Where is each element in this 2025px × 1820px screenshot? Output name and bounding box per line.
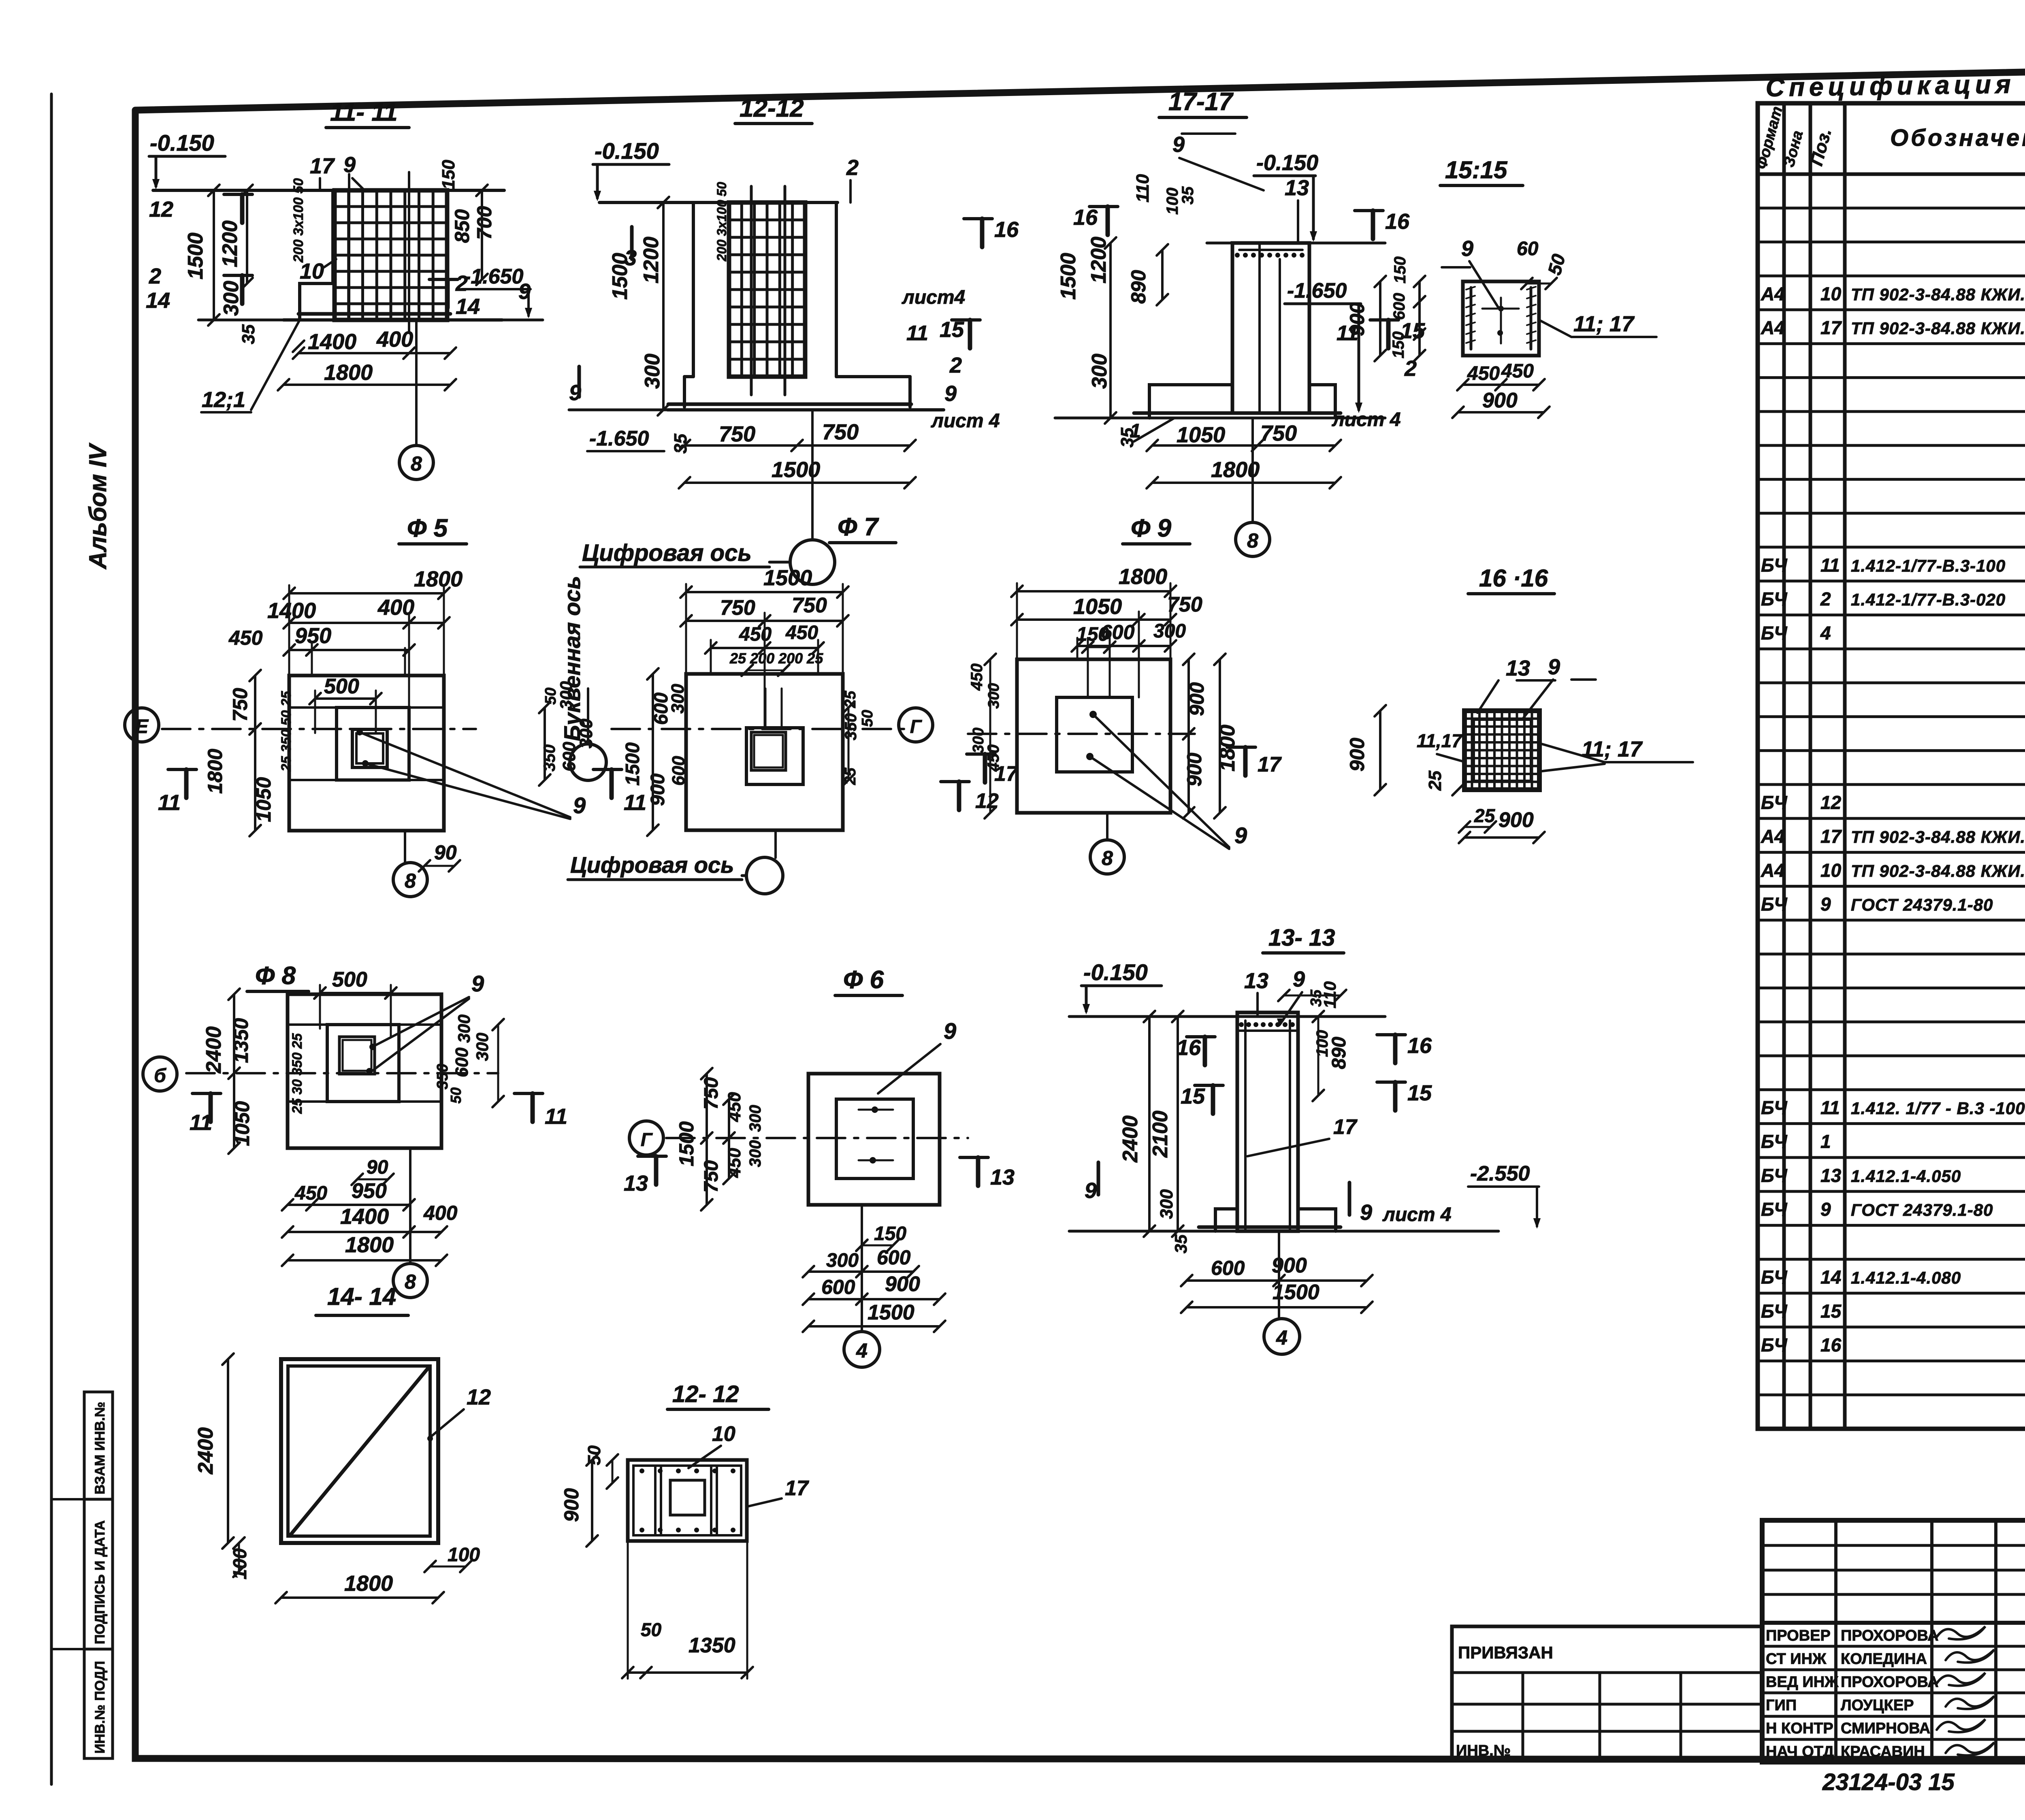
F9 axis dashdot [968, 733, 1195, 735]
svg-text:1350: 1350 [688, 1634, 735, 1657]
11-11 column mesh [335, 190, 447, 320]
svg-text:600: 600 [821, 1276, 855, 1298]
svg-text:1200: 1200 [1087, 237, 1111, 283]
svg-text:1500: 1500 [1057, 253, 1080, 300]
14-14 square [281, 1359, 438, 1543]
svg-text:Ф 9: Ф 9 [1131, 514, 1172, 542]
svg-text:900: 900 [1183, 752, 1206, 786]
F5 extension lines [288, 585, 290, 676]
svg-text:ВЕД ИНЖ: ВЕД ИНЖ [1766, 1674, 1839, 1691]
svg-text:13: 13 [624, 1171, 648, 1196]
svg-text:лист 4: лист 4 [1382, 1204, 1452, 1225]
svg-text:17: 17 [785, 1477, 809, 1500]
F6 axis bubble 4 [861, 1205, 863, 1332]
svg-text:БЧ: БЧ [1761, 622, 1788, 644]
svg-text:450: 450 [985, 744, 1002, 772]
11-11 footing [298, 312, 450, 316]
svg-text:25: 25 [1425, 771, 1445, 791]
F6 axis dashdot [666, 1137, 968, 1139]
svg-text:11,17: 11,17 [1417, 730, 1463, 751]
svg-text:1800: 1800 [204, 749, 226, 794]
svg-text:СТ ИНЖ: СТ ИНЖ [1766, 1650, 1827, 1667]
svg-text:600: 600 [877, 1246, 911, 1269]
svg-text:БЧ: БЧ [1761, 1131, 1788, 1152]
svg-text:1050: 1050 [1177, 423, 1225, 447]
svg-text:2400: 2400 [194, 1427, 217, 1475]
spec table outer box [1758, 103, 2025, 1429]
svg-text:850: 850 [451, 209, 473, 243]
svg-text:35: 35 [1171, 1234, 1190, 1253]
F9 dots [1089, 711, 1097, 718]
svg-text:9: 9 [1360, 1200, 1372, 1225]
svg-text:9: 9 [1172, 132, 1185, 157]
svg-text:900: 900 [1272, 1254, 1307, 1277]
svg-text:25: 25 [1474, 805, 1496, 826]
svg-text:4: 4 [1276, 1326, 1287, 1349]
svg-text:1500: 1500 [868, 1301, 914, 1324]
svg-text:9: 9 [518, 279, 531, 304]
svg-text:БЧ: БЧ [1761, 1199, 1788, 1220]
svg-text:лист 4: лист 4 [931, 410, 1000, 432]
17-17 mesh dots [1235, 253, 1240, 258]
F5 horizontal lines inside [289, 706, 337, 709]
svg-text:50: 50 [584, 1445, 604, 1465]
svg-text:16: 16 [1407, 1034, 1432, 1058]
F8 axis dashdot [186, 1072, 498, 1074]
svg-text:12- 12: 12- 12 [672, 1381, 739, 1407]
svg-text:1200: 1200 [218, 220, 242, 267]
svg-text:25 350 50 25: 25 350 50 25 [279, 690, 294, 772]
svg-text:4: 4 [856, 1339, 868, 1362]
17-17 inner verticals [1258, 243, 1261, 413]
F6 axis circle G [629, 1121, 663, 1155]
svg-text:1800: 1800 [414, 567, 463, 591]
svg-text:А4: А4 [1761, 860, 1785, 881]
strip tie lines [51, 1498, 84, 1500]
svg-text:10: 10 [300, 259, 324, 283]
F5 outer square [289, 676, 444, 831]
svg-text:300: 300 [473, 1033, 492, 1061]
svg-text:25 200 200 25: 25 200 200 25 [729, 650, 823, 667]
svg-text:ЛОУЦКЕР: ЛОУЦКЕР [1841, 1697, 1914, 1714]
title block outer [1762, 1520, 2025, 1762]
svg-text:9: 9 [944, 381, 957, 406]
svg-text:1500: 1500 [184, 232, 207, 279]
svg-text:13: 13 [1506, 656, 1530, 680]
svg-text:300: 300 [641, 354, 664, 389]
svg-text:-0.150: -0.150 [150, 130, 214, 156]
11-11 mesh extra verticals [348, 174, 350, 320]
F8 outer square [288, 994, 441, 1148]
svg-text:600: 600 [669, 756, 688, 786]
svg-text:600: 600 [1211, 1257, 1245, 1279]
left margin strip box [84, 1392, 113, 1758]
11-11 ground line [198, 319, 543, 322]
svg-text:16: 16 [1385, 209, 1410, 234]
svg-text:9: 9 [1548, 655, 1560, 679]
svg-text:35: 35 [1179, 186, 1197, 205]
svg-text:9: 9 [573, 793, 586, 818]
svg-text:14: 14 [456, 294, 480, 319]
svg-text:4: 4 [1820, 622, 1831, 644]
svg-text:9: 9 [1820, 894, 1831, 915]
spec table header row line [1758, 173, 2025, 176]
svg-text:13: 13 [1285, 176, 1309, 200]
13-13 footing [1215, 1209, 1237, 1231]
svg-text:12;1: 12;1 [202, 388, 245, 412]
svg-text:БЧ: БЧ [1761, 1267, 1788, 1288]
spec table column lines [1782, 103, 1786, 1429]
svg-text:8: 8 [405, 870, 416, 892]
svg-text:23124-03 15: 23124-03 15 [1822, 1769, 1955, 1795]
svg-text:15: 15 [1820, 1300, 1842, 1321]
12-12s rect [628, 1460, 747, 1541]
13-13 ground [1069, 1230, 1498, 1233]
13-13 column [1237, 1012, 1298, 1231]
svg-text:15: 15 [1407, 1081, 1432, 1105]
F8 column squares [339, 1037, 375, 1074]
svg-text:лист 4: лист 4 [1332, 409, 1401, 430]
F9 extension lines [1016, 583, 1018, 659]
F5 column squares [352, 729, 387, 767]
svg-text:Альбом IV: Альбом IV [84, 442, 111, 570]
svg-text:1400: 1400 [340, 1204, 389, 1229]
svg-text:-2.550: -2.550 [1470, 1162, 1530, 1185]
svg-text:БЧ: БЧ [1761, 1165, 1788, 1186]
svg-text:ВЗАМ ИНВ.№: ВЗАМ ИНВ.№ [92, 1402, 108, 1494]
svg-text:450: 450 [739, 624, 772, 645]
svg-text:450: 450 [294, 1183, 327, 1204]
13-13 16 15 marks [1203, 1037, 1207, 1065]
svg-text:17: 17 [1820, 317, 1842, 338]
svg-text:Цифровая ось: Цифровая ось [582, 540, 752, 566]
svg-text:9: 9 [1820, 1199, 1831, 1220]
svg-text:1800: 1800 [324, 360, 373, 385]
svg-text:КРАСАВИН: КРАСАВИН [1841, 1743, 1925, 1760]
svg-text:300: 300 [985, 683, 1002, 709]
svg-text:110: 110 [1133, 174, 1153, 202]
svg-text:150: 150 [874, 1223, 906, 1245]
svg-text:16: 16 [1820, 1334, 1842, 1355]
svg-text:Цифровая ось: Цифровая ось [570, 852, 734, 878]
17-17 column [1232, 243, 1309, 413]
svg-text:750: 750 [719, 422, 755, 446]
12-12 column mesh [729, 202, 805, 377]
svg-text:12: 12 [1820, 792, 1842, 813]
svg-text:2100: 2100 [1149, 1110, 1172, 1158]
F7 axis circle G [899, 708, 933, 742]
svg-text:500: 500 [332, 968, 367, 991]
12-12s inner pattern [654, 1466, 657, 1535]
svg-text:БЧ: БЧ [1761, 588, 1788, 610]
svg-text:13: 13 [990, 1165, 1015, 1189]
12-12 top slab line [599, 201, 838, 204]
svg-text:ПОДПИСЬ И ДАТА: ПОДПИСЬ И ДАТА [92, 1520, 108, 1644]
F6 dots [872, 1106, 878, 1113]
svg-text:2400: 2400 [202, 1026, 226, 1074]
F7 column [751, 732, 786, 770]
svg-text:890: 890 [1127, 270, 1150, 304]
svg-text:400: 400 [376, 327, 413, 352]
12-12 footing [684, 375, 693, 378]
svg-text:БЧ: БЧ [1761, 1334, 1788, 1355]
svg-text:750: 750 [701, 1077, 722, 1110]
svg-text:50: 50 [859, 710, 876, 727]
svg-text:17: 17 [310, 154, 335, 178]
svg-text:2: 2 [846, 156, 859, 180]
11-11 left dim chain [213, 190, 215, 320]
svg-text:9: 9 [1234, 823, 1247, 848]
svg-text:11- 11: 11- 11 [330, 98, 398, 126]
svg-text:700: 700 [473, 206, 496, 240]
svg-text:950: 950 [295, 624, 331, 648]
F6 inner rect [836, 1099, 913, 1179]
svg-text:9: 9 [944, 1018, 956, 1044]
svg-text:ТП 902-3-84.88 КЖИ.00.00.05.00: ТП 902-3-84.88 КЖИ.00.00.05.00 [1851, 827, 2025, 846]
F7 middle square [746, 728, 803, 784]
svg-text:Буквенная ось: Буквенная ось [559, 576, 585, 741]
F9 axis bubble 8 [1106, 813, 1108, 839]
svg-text:-0.150: -0.150 [1256, 151, 1318, 175]
svg-text:35: 35 [1308, 989, 1325, 1007]
svg-text:14- 14: 14- 14 [327, 1283, 396, 1310]
svg-text:12-12: 12-12 [740, 94, 804, 122]
svg-text:400: 400 [423, 1202, 458, 1224]
svg-text:350: 350 [434, 1064, 451, 1089]
F9 outer square [1017, 659, 1170, 813]
svg-text:300: 300 [220, 281, 243, 316]
17-17 level line [1207, 242, 1385, 245]
svg-text:150: 150 [439, 160, 458, 190]
F5 middle square [337, 708, 409, 780]
svg-text:11: 11 [624, 791, 646, 815]
svg-text:300: 300 [1157, 1189, 1177, 1219]
svg-text:8: 8 [411, 452, 422, 475]
svg-text:БЧ: БЧ [1761, 1097, 1788, 1118]
svg-text:9: 9 [1085, 1179, 1097, 1203]
F5 axis dashdot [162, 728, 476, 730]
svg-text:13- 13: 13- 13 [1268, 925, 1335, 951]
svg-text:900: 900 [1498, 808, 1534, 832]
17-17 footing [1149, 385, 1232, 418]
11-11 section marks left [240, 194, 245, 223]
svg-text:300: 300 [746, 1105, 764, 1132]
F8 horizontal guides [288, 1023, 327, 1026]
11-11 top slab line [153, 189, 504, 192]
13-13 level line [1069, 1015, 1385, 1018]
svg-text:-0.150: -0.150 [595, 138, 659, 164]
svg-text:500: 500 [324, 675, 359, 698]
svg-text:1800: 1800 [344, 1571, 393, 1596]
svg-text:900: 900 [1346, 737, 1368, 771]
svg-text:9: 9 [1461, 237, 1473, 261]
svg-text:БЧ: БЧ [1761, 792, 1788, 813]
svg-text:25 30 350 25: 25 30 350 25 [290, 1033, 305, 1114]
svg-text:1400: 1400 [308, 330, 356, 354]
svg-text:90: 90 [367, 1157, 388, 1178]
title block vertical lines [1834, 1520, 1837, 1762]
svg-text:1.412. 1/77 - В.3 -100: 1.412. 1/77 - В.3 -100 [1851, 1099, 2025, 1118]
svg-text:100: 100 [1313, 1030, 1331, 1057]
svg-text:ИНВ.№: ИНВ.№ [1456, 1742, 1511, 1759]
svg-text:1: 1 [1820, 1131, 1831, 1152]
svg-text:2: 2 [149, 264, 161, 288]
svg-text:ПРИВЯЗАН: ПРИВЯЗАН [1458, 1643, 1553, 1662]
15-15 hatch ticks [1466, 287, 1475, 290]
svg-text:450: 450 [1467, 363, 1500, 384]
svg-text:Ф 5: Ф 5 [407, 514, 448, 542]
12-12 left dims [662, 202, 665, 410]
svg-text:890: 890 [1328, 1037, 1350, 1069]
F8 axis circle b [143, 1057, 177, 1091]
svg-text:КОЛЕДИНА: КОЛЕДИНА [1841, 1650, 1927, 1667]
svg-text:17: 17 [1333, 1115, 1358, 1139]
svg-text:ГОСТ 24379.1-80: ГОСТ 24379.1-80 [1851, 1200, 1993, 1219]
svg-text:9: 9 [1293, 967, 1305, 991]
svg-text:11: 11 [158, 791, 181, 815]
F8 axis bubble 8 [409, 1148, 411, 1263]
svg-text:750: 750 [792, 594, 827, 617]
svg-text:БЧ: БЧ [1761, 1300, 1788, 1321]
13-13 mesh dots band [1239, 1029, 1296, 1032]
svg-text:750: 750 [701, 1160, 722, 1193]
15-15 rect [1463, 281, 1539, 356]
svg-text:Ф 6: Ф 6 [843, 966, 884, 994]
F8 dots [369, 1044, 376, 1050]
F7 extension lines [685, 584, 687, 674]
svg-text:ТП 902-3-84.88 КЖИ.00.00.05.00: ТП 902-3-84.88 КЖИ.00.00.05.00 [1851, 319, 2025, 338]
svg-text:750: 750 [720, 596, 755, 620]
svg-text:600: 600 [1390, 293, 1408, 320]
svg-text:150: 150 [1390, 331, 1407, 358]
svg-text:35: 35 [239, 324, 258, 344]
svg-text:50: 50 [641, 1619, 662, 1640]
svg-text:300: 300 [454, 1014, 473, 1043]
svg-text:300: 300 [668, 684, 688, 714]
svg-text:Г: Г [910, 716, 922, 737]
svg-text:8: 8 [1247, 529, 1258, 552]
11-11 axis line and bubble 8 [415, 320, 418, 445]
svg-text:750: 750 [1167, 593, 1202, 616]
svg-text:900: 900 [885, 1272, 920, 1296]
17-17 axis bubble [1251, 418, 1254, 522]
11-11 outline step [300, 190, 333, 319]
svg-text:ГИП: ГИП [1766, 1697, 1797, 1714]
svg-text:11; 17: 11; 17 [1573, 312, 1635, 336]
svg-text:9: 9 [343, 153, 356, 177]
svg-text:1050: 1050 [1073, 595, 1122, 619]
svg-text:11: 11 [1820, 1097, 1840, 1118]
svg-text:750: 750 [822, 420, 859, 444]
svg-text:ПРОХОРОВА: ПРОХОРОВА [1841, 1627, 1939, 1644]
svg-text:17: 17 [1258, 753, 1282, 776]
17-17 left dims [1109, 243, 1112, 418]
svg-text:950: 950 [352, 1179, 387, 1203]
svg-text:450: 450 [968, 663, 986, 691]
svg-text:13: 13 [1244, 969, 1268, 993]
svg-text:300: 300 [746, 1140, 764, 1167]
svg-text:350: 350 [541, 744, 558, 771]
svg-text:750: 750 [1260, 421, 1297, 445]
F8 middle square [327, 1025, 399, 1102]
svg-text:450: 450 [228, 627, 263, 649]
svg-text:11: 11 [906, 322, 928, 345]
svg-text:11: 11 [1820, 554, 1840, 575]
F8 extension lines [319, 985, 321, 1029]
svg-text:8: 8 [1102, 847, 1113, 870]
F7 outer square [686, 674, 843, 830]
svg-text:200 3х100 50: 200 3х100 50 [291, 178, 306, 263]
svg-text:10: 10 [1820, 860, 1842, 881]
svg-text:16 ·16: 16 ·16 [1479, 565, 1548, 592]
F6 outer square [808, 1074, 940, 1205]
svg-text:450: 450 [725, 1092, 744, 1122]
svg-text:9: 9 [471, 971, 484, 996]
svg-text:15: 15 [1181, 1084, 1205, 1108]
svg-text:Ф 7: Ф 7 [838, 513, 879, 541]
svg-text:б: б [154, 1065, 166, 1087]
svg-text:12: 12 [149, 197, 173, 222]
outer thin border line left [50, 94, 53, 1784]
svg-text:900: 900 [1482, 389, 1518, 412]
svg-text:1200: 1200 [639, 237, 663, 283]
svg-text:600: 600 [452, 1047, 472, 1077]
svg-text:350: 350 [842, 713, 860, 740]
svg-text:1.412-1/77-В.3-020: 1.412-1/77-В.3-020 [1851, 590, 2006, 609]
svg-text:Н КОНТР: Н КОНТР [1766, 1720, 1833, 1737]
svg-text:Е: Е [135, 716, 149, 737]
svg-text:-0.150: -0.150 [1083, 959, 1148, 985]
svg-text:2400: 2400 [1119, 1115, 1142, 1163]
12-12 ground line [569, 409, 944, 411]
svg-text:12: 12 [467, 1385, 491, 1409]
svg-text:ПРОХОРОВА: ПРОХОРОВА [1841, 1674, 1939, 1691]
svg-text:300: 300 [1088, 354, 1111, 389]
svg-text:Обозначение: Обозначение [1890, 125, 2025, 151]
svg-text:900: 900 [1346, 302, 1368, 336]
svg-text:СМИРНОВА: СМИРНОВА [1841, 1720, 1930, 1737]
svg-text:14: 14 [1820, 1267, 1841, 1288]
svg-text:90: 90 [434, 841, 457, 864]
svg-text:ТП 902-3-84.88 КЖИ.00.00.04.00: ТП 902-3-84.88 КЖИ.00.00.04.00 [1851, 861, 2025, 880]
svg-text:лист4: лист4 [902, 287, 965, 308]
svg-text:450: 450 [785, 622, 818, 644]
F5 axis circle E [125, 708, 159, 742]
svg-text:Ф 8: Ф 8 [255, 962, 296, 990]
svg-text:-1.650: -1.650 [464, 265, 524, 288]
svg-text:БЧ: БЧ [1761, 554, 1788, 575]
svg-text:1500: 1500 [622, 742, 644, 786]
svg-text:150: 150 [1391, 256, 1409, 283]
F7 axis dashdot [612, 728, 911, 730]
svg-text:10: 10 [712, 1422, 735, 1446]
svg-text:750: 750 [229, 688, 252, 722]
12-12 outline [692, 202, 695, 377]
svg-text:2: 2 [1820, 588, 1831, 610]
svg-text:1.412.1-4.050: 1.412.1-4.050 [1851, 1166, 1961, 1185]
svg-text:10: 10 [1820, 283, 1842, 304]
svg-text:1800: 1800 [345, 1233, 394, 1257]
13-13 axis bubble 4 [1278, 1231, 1280, 1318]
F7 inner vertical guides [765, 688, 767, 728]
17-17 16 marks [1106, 207, 1110, 235]
svg-text:А4: А4 [1761, 826, 1785, 847]
svg-text:200 3х100 50: 200 3х100 50 [714, 182, 729, 262]
svg-text:17-17: 17-17 [1168, 88, 1234, 116]
svg-text:1500: 1500 [763, 566, 812, 590]
svg-text:А4: А4 [1761, 317, 1785, 338]
15-15 center marks [1498, 306, 1504, 311]
